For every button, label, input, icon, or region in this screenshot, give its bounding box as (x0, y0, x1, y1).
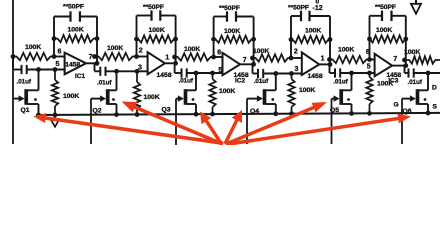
resistor R1v 100K shunt (52, 70, 58, 115)
op-amp U3 label 1458 (234, 72, 249, 79)
wire feedback right vertical U1 (96, 17, 98, 64)
label 100K for R4v (299, 87, 315, 94)
label 100K for R3i (184, 46, 200, 53)
svg-text:5: 5 (56, 61, 60, 68)
svg-text:100K: 100K (376, 27, 392, 34)
junction feedback resistor right U2 (173, 37, 178, 42)
op-amp U4 pin 2 inverting input (294, 48, 298, 55)
svg-text:100K: 100K (224, 28, 240, 35)
junction shunt resistor top stage 4 (289, 71, 294, 76)
junction shunt resistor top stage 3 (210, 71, 215, 76)
op-amp U3 pin 6 inverting input (217, 49, 221, 56)
wire U2 output vertical down to coupling cap (175, 63, 182, 73)
label 100K for R1v (63, 93, 79, 100)
capacitor C3f **50PF feedback (214, 11, 254, 21)
svg-text:6: 6 (58, 48, 62, 55)
junction inverting node U3 (211, 55, 216, 60)
label .01uf for C4 (254, 78, 269, 85)
junction input-resistor branch stage 4 (250, 56, 255, 61)
label Q5 (330, 107, 339, 114)
svg-text:.01uf: .01uf (179, 78, 194, 85)
junction input-resistor branch stage 5 (327, 57, 332, 62)
resistor R4i 100K series input (253, 54, 292, 61)
wire feedback left vertical U1 (53, 17, 55, 57)
junction feedback resistor left U1 (52, 36, 57, 41)
label 100K for R1i (25, 44, 41, 51)
svg-text:**50PF: **50PF (63, 4, 84, 11)
junction drain node stage 1 (36, 67, 41, 72)
label **50PF for C2f (143, 4, 164, 11)
label 100K for R2i (107, 45, 123, 52)
wire source/ground bus (36, 113, 440, 115)
svg-text:7: 7 (89, 54, 93, 61)
label 100K for R2f (149, 27, 165, 34)
label **50PF for C1f (63, 4, 84, 11)
junction feedback resistor right U5 (403, 37, 408, 42)
wire feedback left vertical U4 (290, 16, 292, 58)
label Q6 (403, 108, 412, 115)
label 100K for R2v (144, 94, 160, 101)
capacitor C2 .01uf coupling (100, 67, 105, 76)
svg-text:Q1: Q1 (21, 107, 30, 114)
svg-text:3: 3 (295, 66, 299, 73)
svg-text:Q6: Q6 (403, 108, 412, 115)
resistor R5v 100K shunt (366, 73, 372, 113)
svg-text:.01uf: .01uf (408, 79, 423, 86)
label 100K for R3v (219, 88, 235, 95)
wire U3 output vertical down to coupling cap (253, 64, 259, 73)
capacitor C5 .01uf coupling (335, 68, 340, 77)
label Q1 (21, 107, 30, 114)
svg-text:.01uf: .01uf (254, 78, 269, 85)
junction shunt resistor bottom stage 1 (53, 113, 58, 118)
svg-text:100K: 100K (107, 45, 123, 52)
label 100K for R6i (404, 49, 420, 56)
op-amp U5 pin 6 inverting input (366, 49, 370, 56)
resistor R2f 100K feedback (137, 35, 176, 42)
resistor R4f 100K feedback (291, 36, 330, 43)
svg-text:Q4: Q4 (250, 108, 259, 115)
op-amp U5 pin 5 non-inverting input (367, 64, 371, 71)
junction input-resistor branch stage 3 (172, 55, 177, 60)
junction Q1 source on bus (36, 113, 41, 118)
svg-text:2: 2 (139, 48, 143, 55)
wire output of U3 (240, 63, 254, 65)
svg-text:1: 1 (321, 55, 325, 62)
red annotation arrow to Q1 (33, 113, 223, 143)
svg-text:D: D (432, 85, 437, 92)
label .01uf for C1 (17, 78, 32, 85)
resistor R1f 100K feedback (54, 35, 97, 42)
svg-text:100K: 100K (149, 27, 165, 34)
wire to inverting input U5 (370, 59, 376, 61)
svg-text:100K: 100K (184, 46, 200, 53)
svg-text:**50PF: **50PF (288, 5, 309, 12)
wire Q6 gate control line down (401, 99, 403, 144)
label 100K for R5v (377, 81, 393, 88)
wire feedback left vertical U2 (136, 16, 138, 57)
svg-text:1458: 1458 (308, 73, 323, 80)
wire Q5 gate control line down (331, 99, 333, 144)
junction Q5 source on bus (349, 111, 354, 116)
wire U1 output vertical down to coupling cap (95, 63, 101, 71)
junction feedback resistor left U2 (134, 37, 139, 42)
label Q3 (162, 107, 171, 114)
resistor R3i 100K series input (175, 53, 214, 60)
junction drain node stage 5 (349, 71, 354, 76)
red annotation arrow to Q4 (225, 110, 242, 144)
svg-text:Q2: Q2 (93, 108, 102, 115)
junction shunt resistor bottom stage 5 (367, 111, 372, 116)
op-amp U4 pin 3 non-inverting input (295, 66, 299, 73)
svg-text:.01uf: .01uf (333, 78, 348, 85)
junction shunt resistor top stage 2 (135, 69, 140, 74)
junction shunt resistor bottom stage 2 (135, 112, 140, 117)
transistor Q4 (247, 74, 276, 114)
svg-text:1: 1 (165, 55, 169, 62)
junction shunt resistor top stage 1 (53, 67, 58, 72)
svg-text:.01uf: .01uf (97, 79, 112, 86)
wire Q4 gate control line down (246, 99, 248, 144)
op-amp U3 label IC2 (235, 78, 246, 85)
capacitor C1 .01uf coupling (22, 65, 27, 74)
op-amp U4 label 1458 (308, 73, 323, 80)
label -12 supply (313, 5, 323, 12)
label **50PF for C4f (288, 5, 309, 12)
svg-text:100K: 100K (63, 93, 79, 100)
wire non-inverting node line stage 5 (340, 72, 375, 74)
label Q2 (93, 108, 102, 115)
wire U5 output vertical down to coupling cap (405, 66, 409, 73)
wire feedback right vertical U4 (329, 16, 331, 64)
label .01uf for C5 (333, 78, 348, 85)
resistor R5i 100K series input (330, 56, 370, 63)
op-amp U3 pin 5 non-inverting input (218, 67, 222, 74)
svg-text:1458: 1458 (65, 61, 80, 68)
op-amp U4 pin 1 output (321, 55, 325, 62)
resistor R6i 100K series input to next stage off-page (405, 56, 440, 63)
label Q4 (250, 108, 259, 115)
wire Q2 gate control line down (90, 99, 92, 144)
wire non-inverting node line stage 1 (27, 69, 66, 71)
svg-text:100K: 100K (68, 26, 84, 33)
svg-text:2: 2 (294, 48, 298, 55)
transistor Q1 (13, 70, 39, 116)
label 100K for R3f (224, 28, 240, 35)
wire feedback left vertical U3 (213, 17, 215, 58)
op-amp U5 label 1458 (387, 72, 402, 79)
off-page arrow top right (411, 0, 421, 14)
wire Q3 gate control line down (175, 99, 177, 145)
wire to inverting input U3 (214, 56, 224, 58)
resistor R2v 100K shunt (134, 71, 140, 114)
label .01uf for C2 (97, 79, 112, 86)
op-amp U5 1458 (375, 54, 393, 76)
red annotation arrow to Q6 (227, 114, 412, 145)
resistor R3v 100K shunt (209, 73, 215, 114)
red annotation arrow to Q5 (226, 102, 328, 144)
svg-text:.01uf: .01uf (17, 78, 32, 85)
svg-text:7: 7 (243, 57, 247, 64)
svg-text:100K: 100K (299, 87, 315, 94)
junction inverting node U1 (52, 54, 57, 59)
svg-text:**50PF: **50PF (219, 5, 240, 12)
junction output node U4 (328, 62, 333, 67)
wire input line to C1 coupling cap (13, 57, 22, 70)
op-amp U3 1458 (223, 53, 241, 75)
svg-text:100K: 100K (404, 49, 420, 56)
junction drain node stage 2 (114, 69, 119, 74)
label 100K for R4f (305, 28, 321, 35)
junction output node U1 (95, 61, 100, 66)
op-amp U1 pin 5 non-inverting input (56, 61, 60, 68)
op-amp U2 pin 3 non-inverting input (138, 65, 142, 72)
wire U4 output vertical down to coupling cap (330, 64, 336, 73)
transistor Q6 (402, 73, 428, 113)
op-amp U2 label 1458 (157, 72, 172, 79)
junction drain node stage 6 (426, 71, 431, 76)
svg-text:0: 0 (316, 0, 320, 5)
op-amp U2 pin 2 inverting input (139, 48, 143, 55)
svg-text:S: S (433, 104, 438, 111)
junction output node U2 (173, 61, 178, 66)
svg-text:100K: 100K (305, 28, 321, 35)
junction feedback resistor left U3 (211, 37, 216, 42)
svg-text:100K: 100K (25, 44, 41, 51)
capacitor C4f **50PF feedback (291, 11, 330, 21)
capacitor C5f **50PF feedback (370, 11, 406, 21)
junction input-resistor branch stage 6 (402, 58, 407, 63)
op-amp U2 1458 (148, 52, 165, 74)
wire non-inverting node line stage 3 (187, 72, 224, 74)
capacitor C4 .01uf coupling (258, 69, 263, 78)
svg-text:100K: 100K (377, 81, 393, 88)
op-amp U4 1458 (302, 52, 320, 75)
wire to inverting input U1 (54, 56, 66, 58)
junction Q2 source on bus (114, 112, 119, 117)
op-amp U1 1458 (65, 53, 86, 75)
junction Q3 source on bus (194, 112, 199, 117)
junction input-resistor branch stage 2 (92, 54, 97, 59)
label S source of Q6 (433, 104, 438, 111)
junction feedback resistor right U1 (95, 36, 100, 41)
svg-text:Q3: Q3 (162, 107, 171, 114)
svg-text:7: 7 (393, 56, 397, 63)
label .01uf for C6 (408, 79, 423, 86)
wire non-inverting node line stage 4 (263, 73, 303, 75)
junction Q6 source on bus (426, 111, 431, 116)
junction feedback resistor left U4 (289, 37, 294, 42)
svg-text:**50PF: **50PF (143, 4, 164, 11)
svg-text:5: 5 (367, 64, 371, 71)
wire feedback right vertical U3 (253, 17, 255, 65)
junction output node U5 (403, 63, 408, 68)
junction shunt resistor bottom stage 4 (289, 111, 294, 116)
resistor R4v 100K shunt (288, 74, 294, 114)
label 100K for R5i (338, 47, 354, 54)
label .01uf for C3 (179, 78, 194, 85)
svg-text:1458: 1458 (157, 72, 172, 79)
junction inverting node U2 (134, 54, 139, 59)
wire output of U1 (86, 62, 97, 64)
svg-text:-12: -12 (313, 5, 323, 12)
wire output of U4 (319, 63, 330, 65)
ground continuation open arrow (50, 115, 60, 127)
label G gate of Q6 (394, 102, 399, 109)
label 100K for R5f (376, 27, 392, 34)
resistor R2i 100K series input (95, 53, 137, 60)
capacitor C3 .01uf coupling (182, 68, 187, 77)
capacitor C6 .01uf coupling (409, 68, 414, 77)
red annotation arrow to Q2 (122, 102, 224, 145)
wire feedback right vertical U2 (175, 16, 177, 64)
wire feedback left vertical U5 (369, 16, 371, 60)
op-amp U5 pin 7 output (393, 56, 397, 63)
wire non-inverting node line stage 6 (414, 72, 440, 74)
junction drain node stage 3 (194, 71, 199, 76)
resistor R3f 100K feedback (214, 36, 254, 43)
op-amp U1 pin 6 inverting input (58, 48, 62, 55)
svg-text:100K: 100K (219, 88, 235, 95)
capacitor C2f **50PF feedback (137, 10, 176, 20)
wire input line from previous stage (left edge vertical) (12, 0, 14, 144)
label **50PF for C5f (375, 4, 396, 11)
junction inverting node U5 (367, 57, 372, 62)
transistor Q3 (176, 73, 196, 114)
op-amp U1 pin 7 output (89, 54, 93, 61)
wire feedback right vertical U5 (405, 16, 407, 66)
label 100K for R4i (253, 48, 269, 55)
op-amp U3 pin 7 output (243, 57, 247, 64)
junction Q4 source on bus (273, 111, 278, 116)
svg-text:**50PF: **50PF (375, 4, 396, 11)
junction inverting node U4 (289, 56, 294, 61)
junction shunt resistor top stage 5 (367, 71, 372, 76)
label D drain of Q6 (432, 85, 437, 92)
svg-text:6: 6 (217, 49, 221, 56)
svg-text:G: G (394, 102, 399, 109)
svg-text:IC2: IC2 (235, 78, 246, 85)
resistor R1i 100K series input (13, 53, 54, 60)
op-amp U1 label IC1 (75, 73, 86, 80)
wire to inverting input U4 (291, 57, 303, 59)
junction feedback resistor left U5 (367, 37, 372, 42)
label 0 cropped above -12 (316, 0, 320, 5)
capacitor C1f **50PF feedback (54, 11, 97, 21)
transistor Q5 (332, 73, 352, 113)
transistor Q2 (91, 71, 117, 114)
red annotation arrow to Q3 (200, 112, 222, 144)
wire non-inverting node line stage 2 (106, 70, 149, 72)
junction feedback resistor right U4 (328, 37, 333, 42)
wire output of U5 (392, 65, 406, 67)
svg-text:100K: 100K (253, 48, 269, 55)
svg-text:100K: 100K (144, 94, 160, 101)
op-amp U2 pin 1 output (165, 55, 169, 62)
wire output of U2 (165, 62, 176, 64)
junction drain node stage 4 (273, 71, 278, 76)
junction feedback resistor right U3 (251, 37, 256, 42)
node junction on input line (11, 54, 16, 59)
svg-text:IC1: IC1 (75, 73, 86, 80)
label **50PF for C3f (219, 5, 240, 12)
op-amp U1 label 1458 (65, 61, 80, 68)
svg-text:100K: 100K (338, 47, 354, 54)
resistor R5f 100K feedback (370, 35, 406, 42)
label 100K for R1f (68, 26, 84, 33)
wire to inverting input U2 (137, 56, 149, 58)
junction shunt resistor bottom stage 3 (210, 112, 215, 117)
junction output node U3 (251, 62, 256, 67)
op-amp U5 label IC3 (388, 77, 399, 84)
